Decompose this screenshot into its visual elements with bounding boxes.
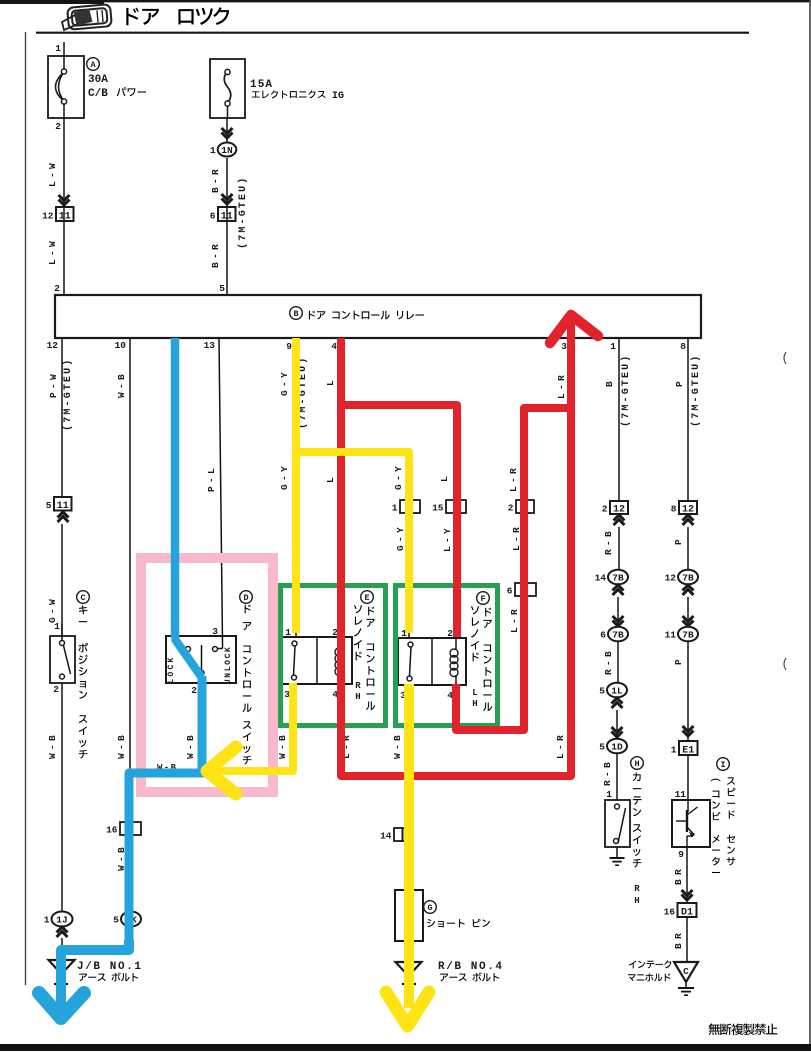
svg-text:16: 16 [664,907,676,918]
wire E pin3 W-B [277,684,294,771]
svg-text:15A: 15A [250,79,272,91]
connector 14-7B [595,570,628,585]
intake manifold connector C [674,962,698,988]
svg-text:5: 5 [46,500,52,511]
curtain switch H [605,789,630,858]
svg-text:G-Y: G-Y [279,466,290,490]
svg-text:P: P [673,539,684,545]
svg-text:R-B: R-B [603,531,614,555]
svg-text:P: P [673,659,684,665]
door lock solenoid E label [354,591,375,710]
connector 5-1L [599,683,627,698]
relay pin 9 [286,341,292,352]
svg-text:L: L [325,477,336,483]
red trace F return [456,408,571,730]
svg-text:B: B [293,309,298,319]
svg-text:2: 2 [508,503,514,514]
svg-text:H: H [355,692,360,702]
svg-text:13: 13 [204,340,216,351]
connector 6 mid [507,583,536,597]
svg-text:1: 1 [392,503,398,514]
svg-text:4: 4 [331,341,337,352]
green highlight box F [396,586,498,726]
svg-text:D: D [243,593,248,603]
svg-text:H: H [472,699,477,709]
svg-text:L: L [325,380,336,386]
connector 2-12 [602,501,628,515]
relay pin 1 [610,341,616,352]
svg-text:30A: 30A [88,74,108,86]
svg-text:3: 3 [561,341,567,352]
wire BR 2 [673,917,687,962]
door control relay B [55,295,701,338]
flow arrow up 1J [57,927,68,937]
svg-text:P-L: P-L [206,468,217,492]
door lock solenoid E [282,627,352,700]
wire L-W upper [47,118,64,295]
svg-text:1: 1 [44,915,50,926]
svg-text:L-R: L-R [555,735,566,759]
connector E1 [671,741,698,756]
connector 14 [380,828,411,842]
yellow arrow head bottom [386,992,429,1026]
svg-text:1: 1 [55,43,61,54]
ground curtain switch [610,858,625,865]
flow arrow down [59,195,70,205]
svg-text:7B: 7B [682,572,694,583]
flow arrow down 7Br [683,616,694,626]
svg-text:E1: E1 [682,745,694,756]
svg-text:1: 1 [606,789,612,800]
harness label 7M-GTEU top [237,178,249,249]
door lock solenoid F label [471,592,492,711]
svg-text:L-W: L-W [47,241,58,265]
relay pin 8 [680,341,686,352]
svg-text:A: A [90,60,96,70]
svg-text:2: 2 [55,121,61,132]
svg-text:9: 9 [286,341,292,352]
svg-text:8: 8 [671,504,677,515]
wire L branch [439,405,457,637]
svg-text:2: 2 [53,684,59,695]
svg-text:IG: IG [332,91,344,102]
svg-text:E: E [364,593,369,603]
ground intake [678,988,694,995]
pink highlight box (door control switch) [141,558,273,792]
svg-text:W-B: W-B [392,735,403,759]
connector D1 [664,903,697,918]
svg-text:B-R: B-R [210,169,221,193]
svg-text:7B: 7B [682,629,694,640]
svg-text:G: G [427,903,432,913]
svg-text:L: L [439,476,450,482]
relay pin 4 [331,341,337,352]
speed sensor I (transistor) [672,789,710,860]
ground J/B NO.1 アース ボルト [49,960,142,988]
yellow trace F pin3 to ground [404,684,414,1008]
svg-text:5: 5 [219,283,225,294]
svg-text:(7M-GTEU): (7M-GTEU) [237,178,249,249]
svg-text:(7M-GTEU): (7M-GTEU) [620,356,632,427]
flow arrow down fuse [222,128,233,138]
svg-text:L-R: L-R [508,468,519,492]
wire P [674,338,702,501]
label C キー ポジション スイッチ [77,591,90,759]
svg-text:L-R: L-R [509,609,520,633]
svg-text:12: 12 [47,340,59,351]
copyright 無断複製禁止 [708,1023,777,1035]
svg-text:R-B: R-B [602,762,613,786]
wire W-B under blue [157,683,202,773]
svg-text:16: 16 [106,825,118,836]
svg-text:11: 11 [59,211,71,222]
wire to ground bolt [61,938,63,959]
wire G-Y branch [393,452,409,637]
svg-text:R: R [355,681,361,691]
svg-text:W-B: W-B [116,735,127,759]
svg-text:J/B NO.1: J/B NO.1 [77,961,141,973]
wire W-B col2 [116,338,130,950]
svg-text:R: R [634,884,640,894]
connector 1N [210,143,236,157]
ground R/B NO.4 アース ボルト [396,961,503,988]
connector 12-11 left [42,207,73,222]
svg-text:L-Y: L-Y [442,528,453,552]
svg-text:G-Y: G-Y [279,372,290,396]
wire L to E [325,338,352,776]
wire F pin4 [455,684,457,730]
wire L-R return [508,408,524,730]
wire label L-Y below [442,528,453,552]
svg-text:5: 5 [113,915,119,926]
svg-text:P-W: P-W [48,374,59,398]
wire F pin3 W-B [392,684,409,961]
svg-text:11: 11 [665,630,677,641]
connector 1J [44,912,73,927]
wire fuse to 1N [226,118,228,142]
svg-text:2: 2 [54,283,60,294]
wire G-W [47,524,62,636]
wire G-Y to E [279,338,309,637]
svg-text:B-R: B-R [210,244,221,268]
svg-text:14: 14 [595,573,607,584]
svg-text:(7M-GTEU): (7M-GTEU) [62,360,74,431]
header rule [36,32,749,34]
svg-text:15: 15 [432,503,444,514]
connector 1K [113,912,141,927]
wire mid 2 [616,710,618,738]
svg-text:1N: 1N [221,145,233,156]
svg-text:11: 11 [221,211,233,222]
wire B [604,338,632,501]
connector 1 mid [392,500,420,514]
svg-text:8: 8 [680,341,686,352]
svg-text:R-B: R-B [603,651,614,675]
svg-text:F: F [480,594,485,604]
flow arrow up 12L [614,515,625,525]
svg-text:2: 2 [602,504,608,515]
flow arrow down 1D [612,727,623,737]
svg-text:2: 2 [191,685,197,696]
svg-text:D1: D1 [681,907,693,918]
label A 30A C/B パワー [87,58,146,100]
svg-text:L: L [472,688,477,698]
connector 2 mid [508,500,534,514]
left page border [25,32,27,985]
svg-text:(7M-GTEU): (7M-GTEU) [690,356,702,427]
wire BR 1 [673,847,687,903]
svg-text:1: 1 [210,145,216,156]
svg-text:10: 10 [115,340,127,351]
wire relay pin11 to switch D [174,338,176,640]
title ドア ロック [126,7,229,25]
wire P-L [206,338,223,643]
relay pin 3 [561,341,567,352]
connector 6-11 [210,207,236,222]
yellow arrow head left [207,747,236,794]
svg-text:12: 12 [665,573,677,584]
relay pin 13 [204,340,216,351]
svg-text:B: B [604,381,615,387]
yellow trace E pin3 [212,683,293,771]
svg-text:1J: 1J [56,914,67,925]
pin 2 into relay [54,283,60,294]
svg-text:C: C [80,593,85,603]
blue arrow head [39,993,84,1018]
red trace main [341,316,571,776]
wire mid r [687,597,689,627]
svg-text:G-Y: G-Y [393,466,404,490]
svg-text:1: 1 [610,341,616,352]
punch mark upper [784,352,786,364]
connector 15 mid [432,500,466,514]
connector 16 [106,822,141,836]
svg-text:5: 5 [599,686,605,697]
svg-text:1L: 1L [611,685,623,696]
green highlight box E [281,586,386,726]
key position switch C [50,621,75,695]
right page edge [809,0,811,1044]
svg-text:UNLOCK: UNLOCK [224,647,233,684]
svg-text:H: H [634,896,639,906]
wire mid [617,597,619,627]
fuse 15A エレクトロニクス IG [210,59,245,118]
svg-text:G-Y: G-Y [395,527,406,551]
wire pin1 to C/B A [55,42,64,56]
svg-text:C: C [683,966,689,977]
door control switch D [166,626,236,696]
label I スピード センサ (コンビ メータ) [711,758,736,873]
wire P 2 [673,527,688,570]
flow arrow down D1 [682,890,693,900]
svg-text:12: 12 [42,211,54,222]
wire P-W [48,338,74,497]
svg-text:C/B: C/B [88,88,108,100]
connector 11-7B [665,627,698,642]
svg-text:7B: 7B [612,629,624,640]
svg-text:1: 1 [671,745,677,756]
header lock icon [62,4,112,30]
flow arrow down E1 [683,726,694,736]
wire label B-R lower [210,244,221,268]
svg-text:W-B: W-B [185,735,196,759]
svg-text:1: 1 [54,621,60,632]
yellow trace from pin9 [292,338,300,633]
wire R-B 3 [602,753,617,800]
wire to sensor [687,755,689,800]
wire B-R upper [210,158,227,295]
svg-text:5: 5 [599,742,605,753]
flow arrow up [58,512,69,522]
circuit breaker A 30A [48,56,84,132]
red trace branch [341,405,457,637]
label 15A エレクトロニクス IG [250,79,344,102]
flow arrow up 7B [613,585,624,595]
red arrow head [550,315,598,343]
svg-text:H: H [634,759,639,769]
flow arrow down B-R [222,194,233,204]
svg-text:7B: 7B [612,572,624,583]
punch mark lower [784,658,786,670]
wire R-B 2 [603,641,618,683]
wire R-B 1 [603,527,619,570]
svg-text:14: 14 [380,831,392,842]
connector 5-11 [46,497,72,512]
blue trace [61,338,202,1012]
page bottom border [0,1044,811,1051]
svg-text:11: 11 [675,789,687,800]
wire L-R main [555,313,571,776]
yellow branch [296,452,409,633]
svg-text:6: 6 [600,630,606,641]
svg-text:W-B: W-B [116,374,127,398]
svg-text:L-W: L-W [47,163,58,187]
page top border [0,0,811,3]
svg-text:R/B NO.4: R/B NO.4 [438,961,502,973]
svg-text:9: 9 [678,849,684,860]
svg-text:1D: 1D [611,741,623,752]
flow arrow down 7B [613,616,624,626]
svg-text:W-B: W-B [277,735,288,759]
svg-text:W-B: W-B [47,735,58,759]
connector 5-1D [599,739,627,754]
door control switch D label [240,591,253,765]
relay pin 10 [115,340,127,351]
label H カーテン スイッチ RH [631,757,644,906]
short pin G [395,890,423,941]
flow arrow up 1L [612,698,623,708]
svg-text:L-R: L-R [556,375,567,399]
label インテーク マニホルド [628,960,671,981]
label G ショート ピン [424,901,490,928]
connector 6-7B [600,627,628,642]
connector 8-12 [671,501,697,515]
wire label G-Y below [395,527,406,551]
svg-text:P: P [674,381,685,387]
wire W-B key switch [47,683,62,912]
wire P 3 [673,641,688,741]
svg-text:6: 6 [507,586,513,597]
pin 5 into relay [219,283,225,294]
svg-text:G-W: G-W [47,599,58,623]
flow arrow up 7Br [683,585,694,595]
wire label L-W lower [47,241,58,265]
door lock solenoid F [398,628,466,701]
svg-text:I: I [720,760,725,770]
connector 12-7B [665,570,698,585]
relay pin 12 [47,340,59,351]
flow arrow up 12R [683,515,694,525]
svg-text:6: 6 [210,211,216,222]
